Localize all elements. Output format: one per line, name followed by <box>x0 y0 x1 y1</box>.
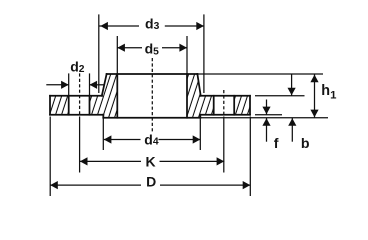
hatch region right outer plate <box>234 96 250 115</box>
arrowhead d5 left <box>117 44 125 52</box>
d4 extension line left <box>102 118 104 150</box>
svg-text:d5: d5 <box>145 40 160 57</box>
hatch region right mid (hub+plate+raised face) <box>187 74 214 118</box>
K extension line left <box>79 117 81 173</box>
dimension line d2 left <box>46 84 68 86</box>
d2 extension line left <box>68 73 70 95</box>
dimension line d4 <box>104 139 141 141</box>
plate right edge <box>249 96 251 115</box>
D extension line right <box>249 117 251 197</box>
arrowhead d2 left (points right) <box>61 81 69 89</box>
d5 extension line right <box>186 36 188 74</box>
arrowhead h1 top (points up) <box>310 75 318 83</box>
arrowhead d3 right <box>196 22 204 30</box>
dimension line d3 <box>99 25 139 27</box>
d3 extension line right <box>203 14 205 93</box>
dimension line d5 <box>117 47 142 49</box>
svg-text:D: D <box>146 174 156 190</box>
arrowhead d4 left <box>104 135 112 143</box>
plate top extension line to b <box>255 95 305 97</box>
dimension line h1 <box>314 74 316 118</box>
plate bottom extension line to f <box>255 114 282 116</box>
d2 extension line right <box>89 73 91 95</box>
plate bottom left <box>50 114 103 116</box>
hub right slant <box>197 74 200 96</box>
d5 extension line left <box>116 36 118 74</box>
flange centerline (dashed) <box>151 58 153 133</box>
dimension line K <box>80 160 141 162</box>
raised face step right <box>199 115 201 118</box>
hub left slant <box>102 74 107 96</box>
arrowhead D left <box>50 181 58 189</box>
hatch region left outer plate <box>50 96 69 115</box>
arrowhead D right <box>243 181 251 189</box>
bolt centerline left (dashed) <box>79 73 81 115</box>
dimension line f lower <box>266 118 268 142</box>
D extension line left <box>49 117 51 197</box>
arrowhead d2 right (points left) <box>90 81 98 89</box>
svg-text:d3: d3 <box>145 16 160 32</box>
bolt hole left, right edge <box>89 96 91 115</box>
arrowhead d3 left <box>100 22 108 30</box>
svg-text:b: b <box>301 136 310 152</box>
hub top extension line to h1/b <box>197 73 323 75</box>
plate top right <box>200 95 250 97</box>
dimension line f upper <box>266 100 268 115</box>
svg-text:f: f <box>274 136 279 152</box>
d4 extension line right <box>199 118 201 150</box>
hub top edge <box>107 73 198 75</box>
bolt hole left, left edge <box>68 96 70 115</box>
svg-text:K: K <box>146 153 156 169</box>
K extension line right <box>223 117 225 173</box>
bolt hole right, left edge <box>213 96 215 115</box>
plate bottom right <box>200 114 250 116</box>
svg-text:d2: d2 <box>70 59 85 75</box>
arrowhead d5 right <box>179 44 187 52</box>
raised face step left <box>102 115 104 118</box>
bore wall left <box>116 74 118 118</box>
arrowhead f upper (points down) <box>262 107 270 115</box>
dimension line b lower <box>291 118 293 142</box>
dimension line b upper <box>291 74 293 96</box>
arrowhead d4 right <box>193 135 201 143</box>
arrowhead K right <box>217 157 225 165</box>
svg-text:h1: h1 <box>321 83 337 102</box>
bore wall right <box>186 74 188 118</box>
arrowhead f lower (points up) <box>262 118 270 126</box>
plate left edge <box>49 96 51 115</box>
bolt hole right, right edge <box>233 96 235 115</box>
svg-text:d4: d4 <box>144 132 159 148</box>
dimension line D <box>50 184 141 186</box>
plate top left <box>50 95 102 97</box>
d3 extension line left <box>98 14 100 93</box>
arrowhead h1 bottom (points down) <box>310 110 318 118</box>
raised face bottom edge <box>103 117 200 119</box>
raised face bottom extension line to f/b/h1 <box>200 117 328 119</box>
arrowhead b upper (points down) <box>288 88 296 96</box>
dimension line d2 right <box>90 84 104 86</box>
hatch region left mid (hub+plate+raised face) <box>90 74 118 118</box>
bolt centerline right (dashed) <box>223 90 225 116</box>
arrowhead b lower (points up) <box>288 118 296 126</box>
arrowhead K left <box>80 157 88 165</box>
